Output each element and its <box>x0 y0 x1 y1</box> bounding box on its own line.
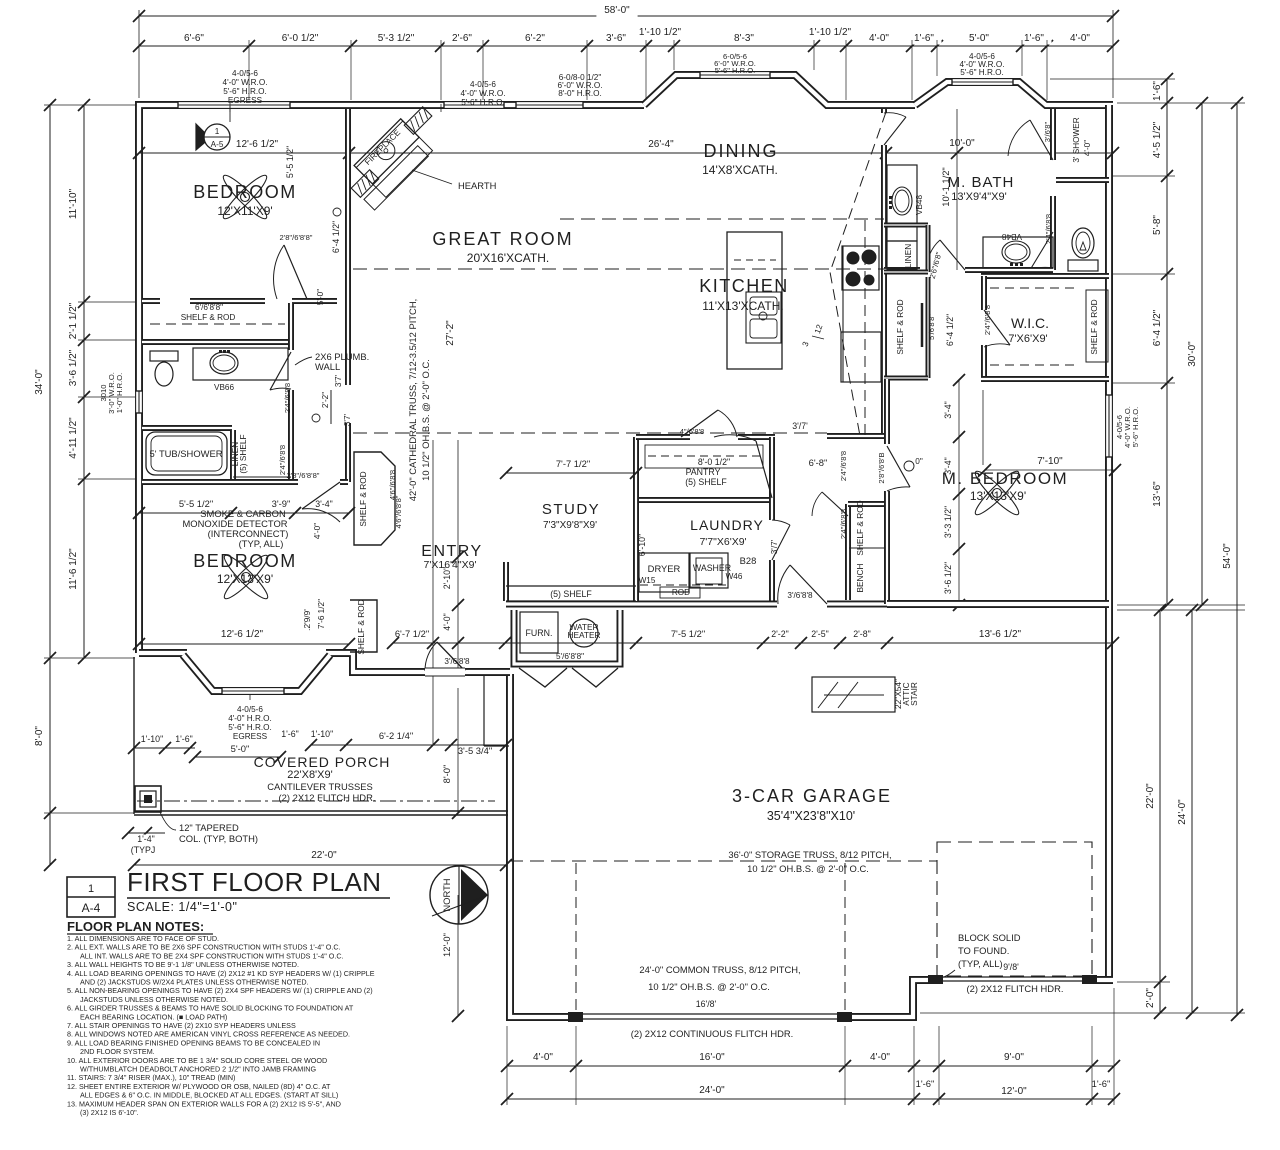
dimension column garage 24'-0 <box>1191 610 1193 1013</box>
svg-text:(5) SHELF: (5) SHELF <box>685 477 727 487</box>
svg-text:0": 0" <box>915 457 923 466</box>
svg-text:VB48: VB48 <box>915 195 924 215</box>
wire exterior wall - master bath bay <box>915 82 1113 105</box>
label bedroom1 rotated dim 6'-4 1/2 <box>333 208 341 216</box>
svg-text:6'-7 1/2": 6'-7 1/2" <box>395 628 429 639</box>
svg-text:7'-10": 7'-10" <box>1037 456 1063 467</box>
svg-text:3'-6": 3'-6" <box>606 33 626 44</box>
svg-text:8'-0" H.R.O.: 8'-0" H.R.O. <box>558 89 602 98</box>
svg-text:3'/6'8'8: 3'/6'8'8 <box>444 657 470 666</box>
svg-text:FLOOR PLAN NOTES:: FLOOR PLAN NOTES: <box>67 919 204 934</box>
svg-text:5'-6" H.R.O.: 5'-6" H.R.O. <box>715 66 755 75</box>
svg-text:12'X11'X9': 12'X11'X9' <box>217 204 272 218</box>
garage door 16/8 panel lines <box>583 1013 837 1015</box>
door - front entry door <box>437 642 465 671</box>
svg-text:4'-0" W.R.O.: 4'-0" W.R.O. <box>461 89 506 98</box>
svg-text:10 1/2" OH.B.S. @ 2'-0" O.C.: 10 1/2" OH.B.S. @ 2'-0" O.C. <box>648 981 770 992</box>
svg-text:6'-4 1/2": 6'-4 1/2" <box>1152 309 1163 346</box>
svg-text:1'-6": 1'-6" <box>1152 81 1163 101</box>
refrigerator <box>841 332 881 382</box>
svg-text:2'-2": 2'-2" <box>321 392 330 408</box>
svg-text:2'-2": 2'-2" <box>771 629 789 639</box>
svg-text:11'X13'XCATH.: 11'X13'XCATH. <box>702 299 784 313</box>
dimension 12'-0 below north arrow <box>457 895 459 1016</box>
svg-text:NORTH: NORTH <box>441 878 452 911</box>
svg-text:4'-0" W.R.O.: 4'-0" W.R.O. <box>223 78 268 87</box>
svg-text:M. BATH: M. BATH <box>948 174 1015 191</box>
svg-text:30'-0": 30'-0" <box>1187 341 1198 367</box>
wire interior wall - closet bottom / bath top <box>142 339 292 345</box>
dimension entry front row <box>311 744 506 746</box>
svg-text:2ND FLOOR SYSTEM.: 2ND FLOOR SYSTEM. <box>80 1047 155 1056</box>
svg-text:1'-6": 1'-6" <box>916 1078 935 1089</box>
furnace box <box>520 612 558 653</box>
svg-text:8'-0": 8'-0" <box>34 726 45 746</box>
svg-text:(3) 2X12 IS 6'-10".: (3) 2X12 IS 6'-10". <box>80 1108 139 1117</box>
svg-text:W46: W46 <box>726 572 743 581</box>
svg-text:BLOCK SOLID: BLOCK SOLID <box>958 932 1021 943</box>
svg-text:A-5: A-5 <box>211 140 224 149</box>
svg-text:1: 1 <box>215 127 220 136</box>
extension lines right side <box>1050 78 1175 80</box>
svg-text:4'-0": 4'-0" <box>533 1052 553 1063</box>
door - bench closet door <box>822 492 848 516</box>
svg-text:.2'9/9': .2'9/9' <box>302 609 312 631</box>
garage door 9/8 panel lines <box>943 976 1082 978</box>
wire furnace closet walls <box>514 610 620 664</box>
door - mbath entry door <box>940 240 965 270</box>
svg-text:COVERED PORCH: COVERED PORCH <box>254 754 391 770</box>
svg-text:8'-0": 8'-0" <box>441 765 452 784</box>
svg-text:KITCHEN: KITCHEN <box>699 276 789 296</box>
svg-text:W15: W15 <box>639 576 656 585</box>
svg-text:12'-0": 12'-0" <box>1001 1086 1027 1097</box>
wire interior wall - pantry top <box>636 434 690 440</box>
wire covered porch left edge <box>133 657 135 814</box>
svg-text:GREAT ROOM: GREAT ROOM <box>432 229 573 249</box>
svg-text:16'/8': 16'/8' <box>696 999 717 1009</box>
svg-text:54'-0": 54'-0" <box>1222 543 1233 569</box>
wire interior wall - bedroom1 right / hall <box>345 109 351 385</box>
extension lines garage bottom <box>506 1026 508 1105</box>
svg-text:13. MAXIMUM HEADER SPAN ON EXT: 13. MAXIMUM HEADER SPAN ON EXTERIOR WALL… <box>67 1099 341 1108</box>
svg-text:26'-4": 26'-4" <box>648 139 674 150</box>
dimension column garage 22'-0 2'-0 <box>1159 610 1161 1013</box>
svg-text:6'-0 1/2": 6'-0 1/2" <box>282 33 319 44</box>
wire exterior wall - bedroom 2 bay window <box>183 655 330 691</box>
dimension vertical x983 wic door <box>982 390 984 465</box>
svg-text:22'-0": 22'-0" <box>1145 783 1156 809</box>
vanity VB48 left <box>887 165 917 241</box>
svg-text:2'-6": 2'-6" <box>452 33 472 44</box>
fireplace unit rotated -45deg <box>342 119 433 210</box>
svg-text:6'-2 1/4": 6'-2 1/4" <box>379 730 413 741</box>
svg-text:PANTRY: PANTRY <box>686 467 721 477</box>
svg-text:1'-10 1/2": 1'-10 1/2" <box>809 27 852 38</box>
door - WIC door <box>984 310 1010 345</box>
svg-text:2'8"/6'8'8": 2'8"/6'8'8" <box>280 233 313 242</box>
wire interior wall - pantry/laundry divider <box>636 497 772 503</box>
svg-text:3'-5 3/4": 3'-5 3/4" <box>458 745 492 756</box>
svg-text:6'-4 1/2": 6'-4 1/2" <box>331 221 341 253</box>
wire study top cased opening dim <box>506 472 636 474</box>
svg-text:6'-4 1/2": 6'-4 1/2" <box>945 314 955 346</box>
svg-text:EGRESS: EGRESS <box>233 732 268 741</box>
svg-text:7'X6'X9': 7'X6'X9' <box>1008 333 1047 345</box>
dimension mbedroom 7'-10 <box>985 469 1115 471</box>
svg-text:5'-6" H.R.O.: 5'-6" H.R.O. <box>228 723 272 732</box>
fireplace hatched side walls <box>346 107 437 198</box>
tub 5ft <box>146 432 227 475</box>
svg-text:2'-5": 2'-5" <box>811 629 829 639</box>
svg-text:7'-7 1/2": 7'-7 1/2" <box>556 458 590 469</box>
door - bedroom2 door <box>302 482 340 509</box>
svg-text:EACH BEARING LOCATION. (■ LOAD: EACH BEARING LOCATION. (■ LOAD PATH) <box>80 1012 227 1021</box>
attic stair box <box>812 677 895 712</box>
svg-text:3. ALL WALL HEIGHTS TO BE 9'-1: 3. ALL WALL HEIGHTS TO BE 9'-1 1/8" UNLE… <box>67 960 299 969</box>
svg-text:2'8"/6'8'8": 2'8"/6'8'8" <box>287 471 320 480</box>
dashed cathedral line kitchen boundary <box>353 268 884 270</box>
svg-text:1'-6": 1'-6" <box>1092 1078 1111 1089</box>
svg-text:CANTILEVER TRUSSES: CANTILEVER TRUSSES <box>267 781 373 792</box>
wire interior wall - study right <box>633 475 639 601</box>
dimension row garage bottom 1 <box>507 1065 1114 1067</box>
dimension row top 58'-0 <box>139 15 1113 17</box>
svg-text:1'-0" H.R.O.: 1'-0" H.R.O. <box>115 373 124 413</box>
svg-text:HEATER: HEATER <box>567 630 600 640</box>
svg-text:5'-6" H.R.O.: 5'-6" H.R.O. <box>461 98 505 107</box>
svg-text:1'-10 1/2": 1'-10 1/2" <box>639 27 682 38</box>
toilet - hall bath <box>150 351 178 361</box>
linen closet kitchen hall <box>884 223 928 228</box>
dashed cathedral line great room / dining <box>560 218 884 220</box>
svg-text:12" TAPERED: 12" TAPERED <box>179 822 239 833</box>
dimension column right inner <box>1166 79 1168 605</box>
dashed vertical kitchen <box>864 220 866 436</box>
washer dryer <box>639 553 689 592</box>
door - bedroom1 door leaf and swing <box>284 245 307 299</box>
dashed garage storage truss line <box>509 860 937 862</box>
wire interior wall - pantry left / study right <box>633 437 639 607</box>
svg-text:4'-0": 4'-0" <box>1083 140 1092 156</box>
window - great room 4-0/5-6 <box>444 101 504 110</box>
svg-text:3'7': 3'7' <box>334 374 343 387</box>
svg-text:3'-6 1/2": 3'-6 1/2" <box>943 562 953 594</box>
svg-text:13'-6 1/2": 13'-6 1/2" <box>979 629 1022 640</box>
svg-text:7. ALL STAIR OPENINGS TO HAVE: 7. ALL STAIR OPENINGS TO HAVE (2) 2X10 S… <box>67 1021 296 1030</box>
wire front stoop outline <box>483 676 485 746</box>
svg-text:8'-0 1/2": 8'-0 1/2" <box>698 457 730 467</box>
dimension row garage bottom 2 <box>507 1098 1114 1100</box>
svg-text:7'3"X9'8"X9': 7'3"X9'8"X9' <box>543 520 597 531</box>
svg-text:3'/7': 3'/7' <box>792 421 808 431</box>
svg-text:2'-1 1/2": 2'-1 1/2" <box>68 302 79 339</box>
svg-text:4. ALL LOAD BEARING OPENINGS T: 4. ALL LOAD BEARING OPENINGS TO HAVE (2)… <box>67 969 375 978</box>
wire interior wall - kitchen/dining east wall <box>881 109 887 436</box>
garage door 16/8 jamb blocks <box>568 1012 583 1022</box>
window - left wall bath 3010 <box>135 391 144 413</box>
svg-text:LAUNDRY: LAUNDRY <box>690 517 764 533</box>
door - toilet room door <box>1030 232 1053 270</box>
svg-text:3' SHOWER: 3' SHOWER <box>1072 117 1081 162</box>
shelf and rod closet kitchen hall <box>926 277 931 378</box>
wire mud bench closet <box>845 504 851 600</box>
svg-text:1'-10": 1'-10" <box>141 734 163 744</box>
svg-text:5'-0": 5'-0" <box>969 33 989 44</box>
svg-text:4'-0": 4'-0" <box>869 33 889 44</box>
svg-text:24'-0" COMMON TRUSS, 8/12 PITC: 24'-0" COMMON TRUSS, 8/12 PITCH, <box>639 964 800 975</box>
svg-text:12'-6 1/2": 12'-6 1/2" <box>236 139 279 150</box>
front door opening jambs <box>425 668 465 676</box>
dimension row bedroom2 smoke note <box>139 512 349 514</box>
svg-text:5'-8": 5'-8" <box>1152 215 1163 235</box>
svg-text:ALL EDGES & 6" O.C. IN MIDDLE,: ALL EDGES & 6" O.C. IN MIDDLE, BLOCKED A… <box>80 1091 338 1100</box>
dimension porch column offsets row <box>134 747 195 749</box>
svg-text:5'-0": 5'-0" <box>316 289 325 305</box>
svg-text:58'-0": 58'-0" <box>604 5 630 16</box>
svg-text:11'-10": 11'-10" <box>68 188 79 219</box>
svg-text:10 1/2" OH.B.S. @ 2'-0" O.C.: 10 1/2" OH.B.S. @ 2'-0" O.C. <box>420 359 431 481</box>
linen closet mbath <box>887 241 917 269</box>
svg-text:ENTRY: ENTRY <box>421 543 482 560</box>
svg-text:SHELF & ROD: SHELF & ROD <box>181 313 236 322</box>
dashed rect garage single bay truss zone <box>937 842 1092 976</box>
svg-text:SHELF & ROD: SHELF & ROD <box>1089 299 1099 354</box>
svg-text:(2) 2X12 FLITCH HDR.: (2) 2X12 FLITCH HDR. <box>279 792 376 803</box>
extension lines garage right <box>1117 609 1245 611</box>
svg-text:6'-2": 6'-2" <box>525 33 545 44</box>
door - furnace closet double doors <box>519 668 567 687</box>
garage door 9/8 jamb blocks <box>928 975 943 984</box>
vanity VB48 bottom <box>983 237 1053 268</box>
wire interior wall - WIC left <box>981 276 987 310</box>
svg-text:5'-3 1/2": 5'-3 1/2" <box>378 33 415 44</box>
svg-text:SHELF & ROD: SHELF & ROD <box>895 299 905 354</box>
wire interior wall - laundry right <box>769 437 775 520</box>
svg-text:3'/6'8": 3'/6'8" <box>1043 122 1052 143</box>
svg-text:6'-8": 6'-8" <box>809 457 828 468</box>
svg-text:BEDROOM: BEDROOM <box>193 182 297 202</box>
svg-text:W/THUMBLATCH DEADBOLT ANCHORED: W/THUMBLATCH DEADBOLT ANCHORED 2 1/2" IN… <box>80 1065 316 1074</box>
svg-text:SHELF & ROD: SHELF & ROD <box>356 599 366 654</box>
svg-text:BENCH: BENCH <box>855 563 865 592</box>
svg-text:10 1/2" OH.B.S. @ 2'-0" O.C.: 10 1/2" OH.B.S. @ 2'-0" O.C. <box>747 863 869 874</box>
svg-text:22'X8'X9': 22'X8'X9' <box>287 769 332 781</box>
svg-text:JACKSTUDS UNLESS OTHERWISE NOT: JACKSTUDS UNLESS OTHERWISE NOTED. <box>80 995 228 1004</box>
svg-text:8'-3": 8'-3" <box>734 33 754 44</box>
svg-text:FIRST FLOOR PLAN: FIRST FLOOR PLAN <box>127 867 382 897</box>
svg-text:4'-5 1/2": 4'-5 1/2" <box>1152 121 1163 158</box>
svg-text:5'-0": 5'-0" <box>231 743 250 754</box>
svg-text:4'-0" H.R.O.: 4'-0" H.R.O. <box>228 714 272 723</box>
svg-text:4-0/5-6: 4-0/5-6 <box>232 69 258 78</box>
svg-text:STUDY: STUDY <box>542 501 600 518</box>
wire garage top wall / laundry bottom <box>506 601 777 608</box>
svg-text:1: 1 <box>88 883 94 895</box>
svg-text:13'-6": 13'-6" <box>1152 481 1163 507</box>
svg-text:20'X16'XCATH.: 20'X16'XCATH. <box>467 251 549 265</box>
dimension vertical center porch 8'-0 <box>457 688 459 813</box>
svg-text:5'-6" H.R.O.: 5'-6" H.R.O. <box>1131 407 1140 447</box>
svg-text:ROD: ROD <box>672 588 690 597</box>
wire interior wall - mbath vanity bottom <box>965 267 1053 273</box>
svg-text:VB48: VB48 <box>1002 232 1022 241</box>
svg-text:2. ALL EXT. WALLS ARE TO BE 2X: 2. ALL EXT. WALLS ARE TO BE 2X6 SPF CONS… <box>67 943 341 952</box>
study shelf strip <box>506 585 636 587</box>
svg-text:1'-6": 1'-6" <box>281 729 299 739</box>
dimension row mbedroom 13'-6 1/2 <box>887 642 1113 644</box>
svg-text:35'4"X23'8"X10': 35'4"X23'8"X10' <box>767 809 855 823</box>
svg-text:8. ALL WINDOWS NOTED ARE AMERI: 8. ALL WINDOWS NOTED ARE AMERICAN VINYL … <box>67 1030 350 1039</box>
svg-text:10. ALL EXTERIOR DOORS ARE TO: 10. ALL EXTERIOR DOORS ARE TO BE 1 3/4" … <box>67 1056 327 1065</box>
svg-text:2'-0": 2'-0" <box>1145 988 1156 1008</box>
svg-text:14'X8'XCATH.: 14'X8'XCATH. <box>702 163 778 177</box>
wire exterior wall - top left wing <box>139 105 644 653</box>
dashed garage door track lines <box>575 862 577 1010</box>
svg-text:1'-10": 1'-10" <box>311 729 333 739</box>
svg-text:7'7"X6'X9': 7'7"X6'X9' <box>699 536 746 548</box>
dimension mbath vertical 10'-1 1/2 <box>956 109 958 270</box>
window - dining bay 6-0/5-6 <box>700 71 770 80</box>
svg-text:WALL: WALL <box>315 361 340 372</box>
svg-text:7'-5 1/2": 7'-5 1/2" <box>671 628 705 639</box>
svg-text:W.I.C.: W.I.C. <box>1011 315 1049 331</box>
window - bedroom 2 bay egress 4-0/5-6 <box>222 687 284 696</box>
svg-text:(TYP, ALL): (TYP, ALL) <box>239 538 284 549</box>
svg-text:3'-3 1/2": 3'-3 1/2" <box>943 506 953 538</box>
svg-text:42'-0" CATHEDRAL TRUSS, 7/12-3: 42'-0" CATHEDRAL TRUSS, 7/12-3.5/12 PITC… <box>407 299 418 501</box>
svg-text:12'-0": 12'-0" <box>441 933 452 957</box>
window - great room 6-0/8-0 <box>516 101 583 110</box>
door - bath door <box>270 352 291 390</box>
svg-text:3'-6 1/2": 3'-6 1/2" <box>68 349 79 386</box>
door - laundry door swing <box>772 525 790 560</box>
wire covered porch front edge <box>134 810 508 812</box>
svg-text:LINEN: LINEN <box>903 244 913 268</box>
svg-text:9'/8': 9'/8' <box>1003 962 1019 972</box>
svg-text:(5) SHELF: (5) SHELF <box>550 589 592 599</box>
svg-text:9'-0": 9'-0" <box>1004 1052 1024 1063</box>
svg-text:3'/6'8'8: 3'/6'8'8 <box>787 591 813 600</box>
door - mud hall to garage door swing <box>790 565 827 604</box>
label 2x6 plumb wall with leader <box>295 357 312 365</box>
svg-text:(2) 2X12 FLITCH HDR.: (2) 2X12 FLITCH HDR. <box>967 983 1064 994</box>
vanity VB66 hall bath <box>193 348 288 380</box>
svg-text:5. ALL NON-BEARING OPENINGS TO: 5. ALL NON-BEARING OPENINGS TO HAVE (2) … <box>67 986 373 995</box>
kitchen island <box>727 232 782 369</box>
svg-text:11. STAIRS: 7 3/4" RISER (MAX: 11. STAIRS: 7 3/4" RISER (MAX.), 10" TRE… <box>67 1073 235 1082</box>
door - dining to master bath <box>880 113 889 145</box>
svg-text:13'X9'4"X9': 13'X9'4"X9' <box>951 191 1006 203</box>
svg-text:1'-6": 1'-6" <box>1024 33 1044 44</box>
svg-text:2'4"/6'8'8: 2'4"/6'8'8 <box>283 383 292 413</box>
dashed diagonal dining-kitchen <box>830 112 886 436</box>
svg-text:M. BEDROOM: M. BEDROOM <box>942 469 1068 488</box>
door - pantry door swing <box>681 410 718 437</box>
wire interior wall - kitchen bottom <box>827 433 884 439</box>
wire exterior wall - dining bay <box>644 75 915 105</box>
svg-text:HEARTH: HEARTH <box>458 180 496 191</box>
wire bedroom2 closet box <box>350 600 377 652</box>
svg-text:6. ALL GIRDER TRUSSES & BEAMS: 6. ALL GIRDER TRUSSES & BEAMS TO HAVE SO… <box>67 1004 354 1013</box>
svg-text:2'4"/6'8'8: 2'4"/6'8'8 <box>983 305 992 335</box>
svg-text:2'4"/6'8'8: 2'4"/6'8'8 <box>1044 214 1053 244</box>
svg-text:4'-0": 4'-0" <box>1070 33 1090 44</box>
wire interior wall - master bedroom left <box>884 379 890 444</box>
svg-text:ALL INT. WALLS ARE TO BE 2X4 S: ALL INT. WALLS ARE TO BE 2X4 SPF CONSTRU… <box>80 951 344 960</box>
svg-text:(TYPJ: (TYPJ <box>131 845 155 855</box>
wire exterior wall - entry front <box>326 653 510 672</box>
hearth leader and label <box>412 170 452 184</box>
wire porch roof overhang dash-dot line <box>137 800 495 802</box>
svg-text:4"/6'8'8: 4"/6'8'8 <box>680 427 705 436</box>
svg-text:27'-2": 27'-2" <box>445 320 456 346</box>
wire interior wall - mbedroom bottom <box>887 600 1109 608</box>
wire interior wall - bath tub divider <box>142 425 232 431</box>
door - diagonal door kitchen hall <box>756 441 772 498</box>
svg-text:SCALE: 1/4"=1'-0": SCALE: 1/4"=1'-0" <box>127 900 237 914</box>
dimension column left inner <box>83 105 85 658</box>
wire interior wall - linen left <box>230 430 236 480</box>
svg-text:4-0/5-6: 4-0/5-6 <box>470 80 496 89</box>
dimension row mud hall <box>393 642 887 644</box>
wire interior wall - shower/toilet divider <box>1056 177 1109 183</box>
svg-text:9. ALL LOAD BEARING FINISHED O: 9. ALL LOAD BEARING FINISHED OPENING BEA… <box>67 1038 320 1047</box>
garage door 16/8 opening <box>583 1011 837 1023</box>
svg-text:2'4"/6'8'8: 2'4"/6'8'8 <box>839 451 848 481</box>
svg-text:(5) SHELF: (5) SHELF <box>238 434 248 473</box>
svg-text:6'-10": 6'-10" <box>637 534 647 556</box>
door - master bedroom door <box>887 446 910 487</box>
svg-text:12'-6 1/2": 12'-6 1/2" <box>221 629 264 640</box>
svg-text:1. ALL DIMENSIONS ARE TO FACE: 1. ALL DIMENSIONS ARE TO FACE OF STUD. <box>67 934 219 943</box>
extension lines left side <box>44 104 135 106</box>
svg-text:3-CAR GARAGE: 3-CAR GARAGE <box>732 786 892 806</box>
dimension porch 5'-0 row <box>195 756 280 758</box>
laundry rod dashed and box <box>640 584 730 586</box>
svg-text:5'-5 1/2": 5'-5 1/2" <box>285 146 295 178</box>
ceiling fan - master bedroom <box>971 467 1022 518</box>
svg-text:24'-0": 24'-0" <box>699 1085 725 1096</box>
svg-text:11'-6 1/2": 11'-6 1/2" <box>68 548 79 590</box>
water heater circle <box>570 619 598 647</box>
svg-text:5'/6'8'8": 5'/6'8'8" <box>556 652 584 661</box>
svg-text:DRYER: DRYER <box>648 563 681 574</box>
door - shower door <box>1030 120 1053 160</box>
svg-text:2'-8": 2'-8" <box>853 629 871 639</box>
svg-text:3'-4": 3'-4" <box>315 499 333 509</box>
svg-text:16'-0": 16'-0" <box>699 1052 725 1063</box>
svg-text:SHELF & ROD: SHELF & ROD <box>358 471 368 526</box>
wire entry coat closet with chamfers <box>354 452 395 545</box>
svg-text:1'-6": 1'-6" <box>914 33 934 44</box>
wire interior wall - bedroom1 closet top <box>142 298 160 304</box>
svg-text:BEDROOM: BEDROOM <box>193 551 297 571</box>
dimension column right 54'-0 <box>1236 103 1238 1015</box>
title block A-4 box <box>67 877 115 917</box>
svg-text:COL. (TYP, BOTH): COL. (TYP, BOTH) <box>179 833 258 844</box>
svg-text:22'-0": 22'-0" <box>311 850 337 861</box>
dimension row bedroom2 12'-6 1/2 <box>139 643 349 645</box>
dimension row top segments <box>139 45 1113 47</box>
svg-text:4'-0": 4'-0" <box>313 523 322 539</box>
wire exterior wall - garage front right section <box>510 674 1113 1017</box>
svg-text:4'-0": 4'-0" <box>442 613 452 631</box>
svg-text:A-4: A-4 <box>82 901 101 915</box>
svg-text:5'-6" H.R.O.: 5'-6" H.R.O. <box>960 68 1004 77</box>
svg-text:12. SHEET ENTIRE EXTERIOR W/ P: 12. SHEET ENTIRE EXTERIOR W/ PLYWOOD OR … <box>67 1082 331 1091</box>
svg-text:4'-0": 4'-0" <box>870 1052 890 1063</box>
